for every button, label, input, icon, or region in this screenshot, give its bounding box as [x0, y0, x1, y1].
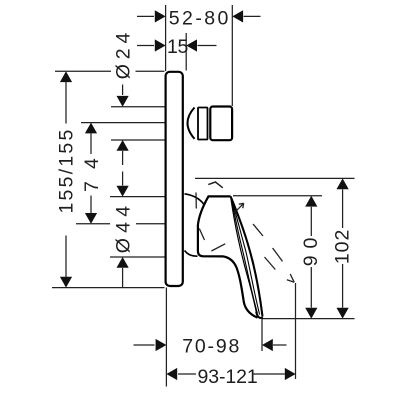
svg-text:155/155: 155/155 [56, 128, 78, 213]
svg-text:Ø24: Ø24 [113, 31, 135, 79]
svg-text:102: 102 [332, 228, 354, 264]
svg-text:52-80: 52-80 [169, 7, 230, 29]
svg-text:15: 15 [167, 36, 190, 58]
svg-text:Ø44: Ø44 [113, 205, 135, 254]
svg-text:93-121: 93-121 [198, 366, 259, 388]
svg-text:70-98: 70-98 [182, 336, 240, 358]
